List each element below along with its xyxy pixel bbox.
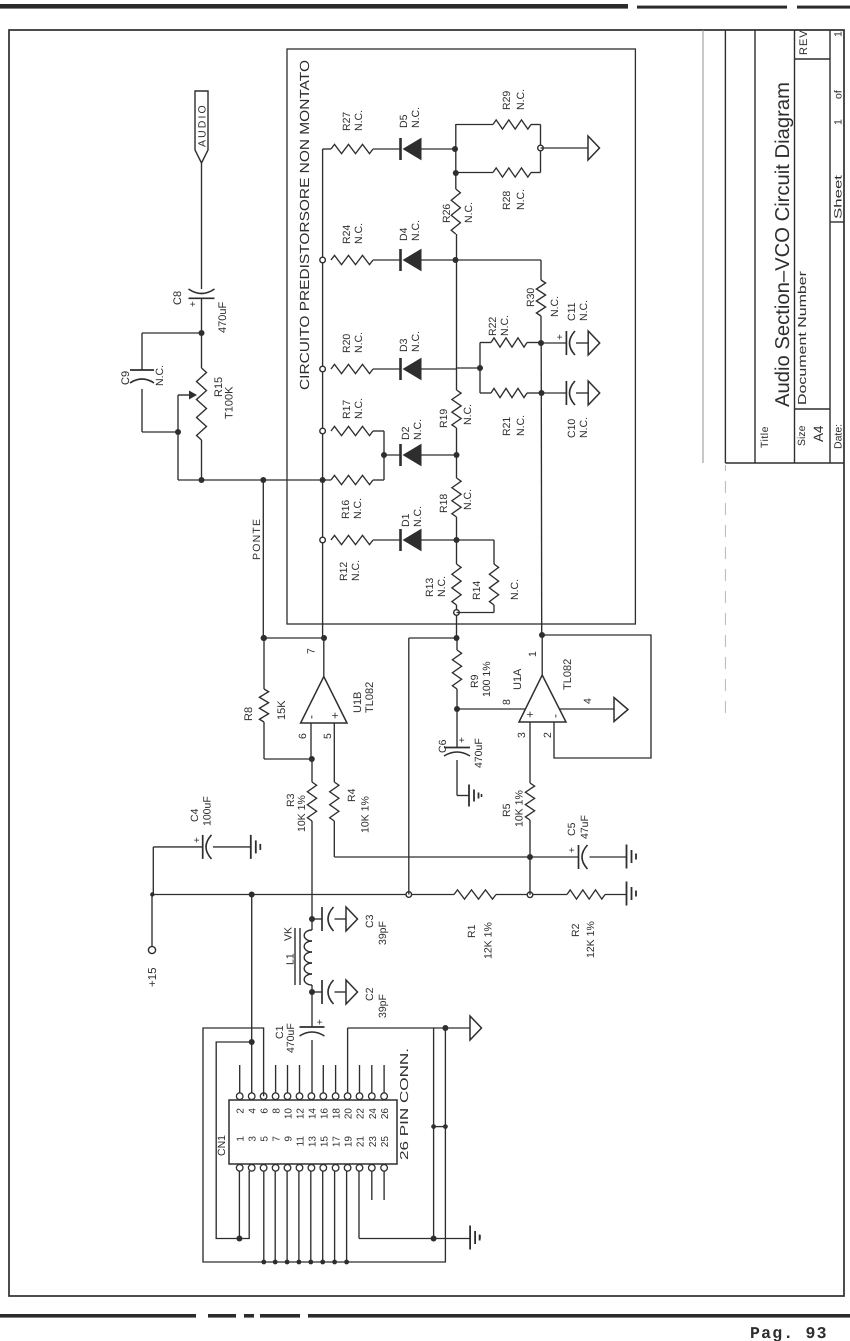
wire R27 to D5: [373, 148, 401, 150]
ground (C4): [250, 835, 252, 859]
inductor L1 VK: [311, 919, 313, 930]
svg-text:22: 22: [356, 1108, 367, 1120]
wire U1A pin1 output: [541, 635, 543, 675]
wire C9 to wiper line: [142, 431, 178, 433]
open junction rail/predistorter feed: [406, 892, 412, 898]
resistor R17 N.C.: [331, 426, 373, 435]
svg-text:N.C.: N.C.: [350, 560, 362, 581]
resistor R8 15K: [259, 689, 268, 722]
junction rail/PONTE: [260, 477, 266, 483]
wire R1 to R2: [496, 894, 567, 896]
svg-text:Audio Section–VCO Circuit Diag: Audio Section–VCO Circuit Diagram: [772, 82, 794, 407]
bus corner to R27: [323, 148, 331, 150]
junction rail/R14 loop: [454, 610, 460, 616]
junction rail/R28: [453, 170, 459, 176]
svg-text:3: 3: [516, 732, 528, 738]
svg-text:1: 1: [833, 31, 845, 37]
trimmer R15 wiper arrow: [178, 394, 190, 396]
open junction rail/C5 node: [527, 892, 533, 898]
wire R22 top to D3 node: [480, 342, 491, 344]
resistor R21 N.C.: [491, 388, 527, 397]
resistor R9 100 1%: [452, 650, 461, 689]
wire U1B output node vertical: [264, 637, 324, 639]
junction D5/rail: [452, 146, 458, 152]
junction rail top: [150, 892, 154, 896]
svg-text:4: 4: [582, 698, 594, 704]
svg-text:R28: R28: [501, 191, 513, 210]
junction R8/PONTE node: [261, 635, 267, 641]
svg-text:R22: R22: [487, 317, 499, 336]
svg-text:2: 2: [542, 732, 554, 738]
wire pin1: [238, 1171, 240, 1239]
svg-text:-: -: [548, 714, 562, 718]
capacitor C9 N.C.: [130, 369, 154, 371]
wire R24 to D4: [373, 259, 401, 261]
svg-text:U1B: U1B: [352, 692, 364, 713]
svg-text:R16: R16: [340, 500, 352, 519]
wire D2 to rail: [421, 454, 457, 456]
svg-text:N.C.: N.C.: [462, 489, 474, 510]
svg-text:N.C.: N.C.: [353, 223, 365, 244]
wire rail R19 to D3/D4: [456, 234, 458, 390]
svg-text:100uF: 100uF: [202, 796, 214, 826]
resistor R30 N.C.: [536, 280, 545, 316]
svg-text:of: of: [833, 90, 845, 99]
predistorter dashed-area box: [287, 49, 635, 624]
svg-text:R24: R24: [341, 225, 353, 244]
ground (R2): [626, 882, 628, 906]
net label AUDIO flag: [195, 91, 208, 163]
wire C10 to arrow: [576, 392, 588, 394]
capacitor C4 100uF: [202, 835, 204, 859]
svg-text:Pag. 93: Pag. 93: [750, 1324, 828, 1341]
junction rail/R15: [199, 477, 205, 483]
svg-text:+: +: [328, 712, 342, 719]
svg-text:CN1: CN1: [216, 1135, 228, 1156]
wire R29 top leg: [456, 124, 493, 126]
svg-text:19: 19: [344, 1136, 355, 1148]
svg-text:15K: 15K: [276, 700, 288, 720]
junction R4/R5/C5: [527, 854, 533, 860]
svg-text:N.C.: N.C.: [499, 315, 511, 336]
wire PONTE jumper: [262, 480, 264, 638]
svg-text:+: +: [192, 837, 203, 843]
wire C9 right leg: [141, 333, 143, 370]
junction U1B pin7: [321, 635, 327, 641]
svg-text:Sheet: Sheet: [833, 175, 845, 219]
resistor R4 10K 1%: [330, 782, 339, 821]
junction pin1 loop: [236, 1236, 242, 1242]
svg-text:U1A: U1A: [512, 668, 524, 690]
junction R28/R29 output: [538, 145, 544, 151]
wire C6 right leg: [456, 709, 458, 748]
resistor R12 N.C.: [331, 535, 373, 544]
ground (C5): [626, 845, 628, 869]
title block divider Size/Document: [795, 408, 831, 410]
junction R30/R22/C11: [538, 340, 544, 346]
resistor R2 12K 1%: [567, 890, 605, 899]
svg-text:Title: Title: [759, 426, 771, 448]
junction D1/rail: [454, 537, 460, 543]
svg-text:N.C.: N.C.: [549, 296, 561, 317]
wire D1 to rail: [421, 539, 457, 541]
wire U1A pin3: [529, 722, 531, 783]
svg-text:15: 15: [319, 1136, 330, 1148]
svg-text:R27: R27: [341, 112, 353, 131]
svg-text:VK: VK: [283, 927, 295, 941]
bus junction R20: [320, 366, 326, 372]
svg-text:R30: R30: [525, 288, 537, 307]
junction rail/pin4 branch: [249, 892, 255, 898]
wire predistorter bus: [322, 149, 324, 638]
svg-text:N.C.: N.C.: [412, 506, 424, 527]
wire pin6 ground loop: [203, 1028, 445, 1262]
junction L1/C3: [309, 916, 315, 922]
wire pin1/pin3 supply loop: [216, 1042, 252, 1239]
resistor R24 N.C.: [331, 255, 373, 264]
page top edge line: [0, 4, 850, 9]
svg-text:N.C.: N.C.: [353, 332, 365, 353]
wire C8 to AUDIO flag: [201, 163, 203, 289]
wire R4 to C5 node: [333, 821, 335, 857]
svg-text:14: 14: [307, 1108, 318, 1120]
ground (C6): [468, 785, 470, 807]
arrow terminal (C2): [346, 980, 358, 1004]
wire diode rail segment left: [456, 605, 458, 638]
svg-text:R9: R9: [469, 674, 481, 688]
wire R8 right leg: [263, 638, 265, 689]
svg-text:N.C.: N.C.: [509, 579, 521, 600]
svg-text:3: 3: [248, 1136, 259, 1142]
svg-text:R2: R2: [570, 923, 582, 937]
junction PONTE/U1B node: [261, 635, 267, 641]
svg-text:6: 6: [297, 733, 309, 739]
wire node A to C8: [201, 298, 203, 333]
svg-text:470uF: 470uF: [217, 302, 229, 333]
svg-text:7: 7: [306, 648, 318, 654]
svg-text:R19: R19: [438, 409, 450, 428]
svg-text:20: 20: [344, 1108, 355, 1120]
svg-text:12: 12: [296, 1108, 307, 1120]
connector pin circles left (odd pins): [236, 1165, 243, 1172]
wire C11 to arrow: [576, 342, 588, 344]
svg-text:N.C.: N.C.: [410, 220, 422, 241]
svg-text:N.C.: N.C.: [462, 404, 474, 425]
wire odd pins to ground bus: [263, 1171, 265, 1262]
fold mark artifact line (title area): [702, 30, 704, 463]
svg-text:47uF: 47uF: [579, 815, 591, 839]
svg-text:2: 2: [236, 1108, 247, 1114]
wire U1B pin5 stub: [333, 723, 335, 782]
resistor R29 N.C.: [493, 120, 531, 129]
junction D3 feed: [477, 365, 483, 371]
svg-text:5: 5: [260, 1136, 271, 1142]
capacitor C1 470uF: [300, 1026, 325, 1028]
junction R9/C6/pin8: [454, 706, 460, 712]
svg-text:REV: REV: [798, 29, 810, 55]
svg-text:470uF: 470uF: [473, 738, 485, 768]
svg-text:N.C.: N.C.: [463, 202, 475, 223]
svg-text:+: +: [567, 847, 578, 853]
svg-text:C10: C10: [566, 419, 578, 438]
resistor R22 N.C.: [491, 338, 527, 347]
diode D1 N.C.: [399, 529, 402, 551]
wire R21 bottom leg: [527, 392, 542, 394]
wire U1A feedback loop: [542, 635, 651, 758]
svg-text:-: -: [304, 715, 318, 719]
svg-text:T100K: T100K: [224, 386, 236, 419]
resistor R13 N.C.: [452, 564, 461, 605]
wire D4 to rail: [421, 259, 456, 261]
wire C1 to pin14: [311, 1040, 313, 1093]
svg-text:N.C.: N.C.: [352, 498, 364, 519]
svg-text:R13: R13: [424, 578, 436, 597]
resistor R14 N.C. parallel loop: [457, 539, 495, 541]
svg-text:R1: R1: [466, 924, 478, 938]
svg-text:C9: C9: [120, 371, 132, 385]
svg-text:6: 6: [260, 1108, 271, 1114]
svg-text:N.C.: N.C.: [578, 300, 590, 321]
svg-text:N.C.: N.C.: [410, 331, 422, 352]
resistor R16 N.C.: [331, 475, 373, 484]
svg-text:10K 1%: 10K 1%: [360, 796, 372, 833]
diode D2 N.C.: [399, 444, 402, 466]
junction pin6/R3: [309, 756, 315, 762]
arrow terminal (U1A pin4): [614, 698, 628, 722]
wire C11 top leg: [541, 342, 566, 344]
junction D2 anode: [381, 452, 387, 458]
svg-text:R8: R8: [243, 707, 255, 721]
wire C4 to ground: [213, 846, 251, 848]
junction L1/C2: [309, 989, 315, 995]
wire pin8: [457, 708, 525, 710]
title block outline: [724, 30, 726, 463]
svg-text:+: +: [457, 737, 468, 743]
svg-text:1: 1: [236, 1136, 247, 1142]
svg-text:+: +: [315, 1019, 326, 1025]
wire C5 top leg: [530, 856, 579, 858]
wire U1A pin4: [559, 708, 614, 710]
svg-text:13: 13: [307, 1136, 318, 1148]
svg-text:N.C.: N.C.: [154, 365, 166, 386]
svg-text:39pF: 39pF: [377, 994, 389, 1018]
wire inner ground link: [433, 1028, 435, 1239]
svg-text:Document Number: Document Number: [797, 271, 809, 405]
wire U1B pin7 output: [323, 638, 325, 677]
wire +15 to rail: [151, 895, 153, 947]
svg-text:R18: R18: [438, 494, 450, 513]
wire R12 to D1: [373, 539, 401, 541]
svg-text:A4: A4: [811, 425, 826, 442]
wire D3 to rail: [421, 368, 457, 370]
svg-text:N.C.: N.C.: [515, 415, 527, 436]
wire rail D1 to R18: [456, 517, 458, 540]
svg-text:8: 8: [501, 699, 513, 705]
wire D3 node stub: [457, 367, 481, 369]
junction diode rail/R9: [454, 635, 460, 641]
svg-text:D2: D2: [400, 426, 412, 440]
svg-text:100 1%: 100 1%: [481, 661, 493, 697]
capacitor C2 39pF: [312, 991, 322, 993]
junction D2/rail: [454, 452, 460, 458]
junction inner ground link: [431, 1236, 437, 1242]
svg-text:C2: C2: [364, 987, 376, 1001]
svg-text:470uF: 470uF: [285, 1023, 297, 1053]
wire R13 to D1 node: [456, 540, 458, 564]
svg-text:Date:: Date:: [833, 424, 845, 449]
svg-text:D1: D1: [400, 513, 412, 527]
svg-text:10K 1%: 10K 1%: [514, 790, 526, 827]
svg-text:11: 11: [296, 1136, 307, 1147]
svg-text:4: 4: [248, 1108, 259, 1114]
arrow terminal (C11): [588, 331, 600, 355]
wire R28/R29 bottom bar: [531, 172, 541, 174]
svg-text:D3: D3: [398, 338, 410, 352]
resistor R3 10K 1%: [307, 782, 316, 821]
svg-text:R17: R17: [341, 400, 353, 419]
svg-text:L1: L1: [285, 953, 297, 965]
wire rail R18 to D2: [456, 455, 458, 478]
svg-text:9: 9: [284, 1136, 295, 1142]
wire C5 to ground: [590, 856, 627, 858]
svg-text:AUDIO: AUDIO: [197, 103, 209, 147]
svg-text:8: 8: [272, 1108, 283, 1114]
title block divider Sheet: [830, 221, 844, 223]
svg-text:1: 1: [527, 651, 539, 657]
op-amp U1B TL082: [301, 677, 347, 723]
svg-text:CIRCUITO PREDISTORSORE NON MON: CIRCUITO PREDISTORSORE NON MONTATO: [297, 60, 312, 390]
wire R8 to pin6: [263, 722, 265, 759]
+15 supply terminal: [148, 946, 155, 953]
junction rail/bus: [320, 477, 326, 483]
wire node A up-leg to C9 branch: [142, 332, 202, 334]
arrow terminal (C10): [588, 381, 600, 405]
svg-text:N.C.: N.C.: [412, 419, 424, 440]
svg-text:C6: C6: [437, 739, 449, 753]
wire R15 wiper line: [177, 395, 179, 480]
diode D4 N.C.: [399, 249, 402, 271]
title block divider REV: [795, 58, 831, 60]
wire R3 to L1 node: [311, 821, 313, 919]
wire R17 to D2 node: [373, 430, 384, 432]
arrow terminal (pin20): [470, 1016, 482, 1040]
wire R22 bottom leg: [527, 342, 541, 344]
svg-text:R4: R4: [346, 788, 358, 802]
wire R30 to C11 node: [540, 316, 542, 343]
wire R20 to D3: [373, 368, 401, 370]
svg-text:12K 1%: 12K 1%: [585, 921, 597, 958]
svg-text:16: 16: [319, 1108, 330, 1120]
svg-text:21: 21: [356, 1136, 367, 1148]
junction D4/rail: [453, 257, 459, 263]
svg-text:R29: R29: [501, 91, 513, 110]
svg-text:10K 1%: 10K 1%: [296, 795, 308, 832]
junction pin4/pin1 loop: [249, 1039, 255, 1045]
svg-text:TL082: TL082: [364, 682, 376, 713]
wire D5 to rail: [421, 148, 455, 150]
connector odd pin stubs 23/25: [371, 1171, 373, 1200]
wire +15 feed to diode rail: [408, 638, 410, 895]
resistor R28 N.C.: [493, 168, 531, 177]
resistor R1 12K 1%: [454, 890, 496, 899]
resistor R26 N.C.: [451, 189, 460, 234]
connector even pin stubs: [239, 1065, 241, 1093]
ground (connector): [469, 1226, 471, 1250]
svg-text:R21: R21: [501, 417, 513, 436]
resistor R27 N.C.: [331, 144, 373, 153]
wire rail D2 to R19: [456, 428, 458, 455]
connector pin circles right (even pins): [236, 1093, 243, 1100]
svg-text:+: +: [188, 301, 199, 307]
arrow terminal (R28/R29): [588, 136, 600, 160]
svg-text:+: +: [555, 334, 566, 340]
wire left rail vertical: [178, 479, 331, 481]
capacitor C10 N.C.: [565, 381, 567, 405]
junction ground loop/pin20 line: [442, 1025, 448, 1031]
node A junction: [199, 330, 205, 336]
svg-text:23: 23: [368, 1136, 379, 1148]
svg-text:R12: R12: [338, 562, 350, 581]
svg-text:C11: C11: [566, 302, 578, 321]
svg-text:R14: R14: [471, 581, 483, 600]
svg-text:+15: +15: [147, 967, 159, 987]
wire C10 top leg: [542, 392, 567, 394]
svg-text:18: 18: [332, 1108, 343, 1120]
wire to down arrow: [541, 147, 589, 149]
svg-text:Size: Size: [796, 425, 808, 446]
diode D5 N.C.: [399, 138, 402, 160]
svg-text:N.C.: N.C.: [578, 417, 590, 438]
capacitor C8 470uF: [189, 297, 215, 299]
page bottom edge line: [0, 1314, 850, 1318]
wire D2 anode stub: [384, 454, 401, 456]
wire R21 top leg: [480, 392, 491, 394]
bus junction R12: [320, 537, 326, 543]
svg-text:5: 5: [322, 733, 334, 739]
svg-text:N.C.: N.C.: [410, 107, 422, 128]
wire +15 rail: [152, 894, 454, 896]
capacitor C5 47uF: [578, 845, 580, 869]
capacitor C11 N.C.: [565, 331, 567, 355]
bus junction R17: [320, 428, 326, 434]
resistor R20 N.C.: [331, 364, 373, 373]
svg-text:17: 17: [332, 1136, 343, 1148]
capacitor C6 470uF: [444, 747, 470, 749]
arrow terminal (C3): [346, 907, 358, 931]
svg-text:C4: C4: [189, 808, 201, 822]
wire R2 to ground: [605, 894, 627, 896]
svg-text:D5: D5: [398, 114, 410, 128]
L1 core bars: [294, 928, 296, 985]
op-amp U1A TL082: [519, 675, 566, 722]
svg-text:N.C.: N.C.: [436, 576, 448, 597]
svg-text:26 PIN CONN.: 26 PIN CONN.: [399, 1048, 411, 1160]
svg-text:PONTE: PONTE: [251, 518, 263, 560]
svg-text:12K 1%: 12K 1%: [483, 922, 495, 959]
svg-text:26: 26: [380, 1108, 391, 1120]
svg-text:TL082: TL082: [562, 659, 574, 690]
junction pin1/feedback: [539, 632, 545, 638]
wire R5 to C5 node: [529, 820, 531, 857]
svg-text:D4: D4: [398, 227, 410, 241]
svg-text:R5: R5: [501, 803, 513, 817]
svg-text:+: +: [523, 711, 537, 718]
bus junction R24: [320, 257, 326, 263]
wire D4 node to R30: [456, 259, 542, 261]
svg-text:N.C.: N.C.: [353, 110, 365, 131]
svg-text:10: 10: [284, 1108, 295, 1120]
junction C9/wiper: [175, 429, 181, 435]
